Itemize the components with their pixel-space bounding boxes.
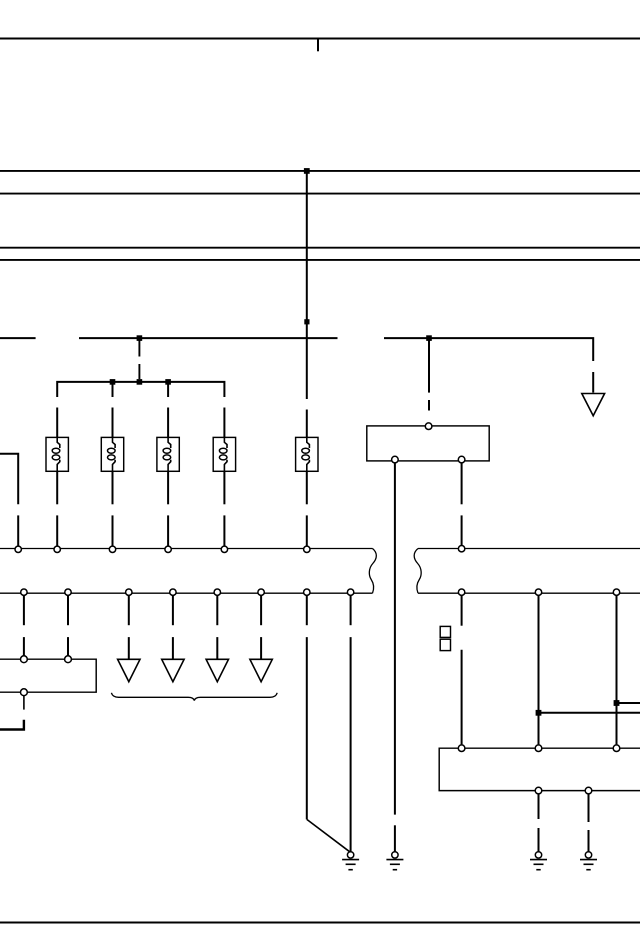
terminal on bus 2 at x=461.6 [458,589,464,595]
terminal on bus 1 at x=112.5 [109,546,115,552]
wire: coil L5 lead down to bus 1 [306,471,308,546]
terminal pin on bottom of U1 at x=461.6 [458,456,465,463]
terminal on bus 2 at x=68 [65,589,71,595]
terminal on bus 1 at x=168.1 [165,546,171,552]
terminal on bus 1 at x=306.8 [304,546,310,552]
terminal on bus 1 at x=461.6 [458,546,464,552]
wire: lead x=461.6 from U1 down to bus 1 [461,463,463,546]
junction dot at (538.5,712.8) [536,710,542,716]
coil box L3 (x=168.1) [157,437,179,471]
wire: drop x=68 from bus 2 to box U2 [67,595,69,656]
power bus line B (y=193.6) [0,193,640,195]
terminal on top of U2 at x=23.9 [21,656,28,663]
bus 1 right segment (y=548.5) [418,548,640,550]
break squiggle at end of bus 1/2 left segments [369,549,376,594]
junction dot at (616.5,703) [614,700,620,706]
junction dot at (139.4,381.9) [137,379,143,385]
wire: left elbow from edge (y=453.7) down to bus 1 [0,454,18,547]
terminal on bottom of U2 at x=23.9 [21,689,28,696]
wire: drop x=23.9 from bus 2 to box U2 [23,595,25,656]
terminal pin on top of U1 at x=428.6 [425,423,432,430]
wire: dashed below U2 then heavy elbow to left edge [0,696,24,730]
arrow A1 (open triangle, off-page pointer) [118,659,140,681]
wire: dashed feed into coil box 4 [223,408,225,438]
junction dot at (429,338.1) [426,335,432,341]
coil box L2 (x=112.5) [101,437,123,471]
bus 2 right segment (y=593.2) [418,592,640,594]
terminal on bus 2 at x=23.9 [21,589,27,595]
terminal on top of U2 at x=68 [65,656,72,663]
ground G2 (terminal + earth strokes) [386,852,403,870]
bottom frame border line [0,922,640,924]
terminal on bus 1 at x=57.2 [54,546,60,552]
box U2 (left connector block, cropped at left edge) [0,659,96,692]
wire: vertical feed x=306.8 from bus A down to coil box 5 [306,171,308,438]
box U1 (relay/unit, x 366.8-489.2, y 425.9-460.9) [367,426,489,461]
wire: drop x=616.5 from bus 2 down to box U3 [616,595,618,744]
wire: horizontal branch y=712.8 to right edge [539,712,640,714]
junction dot on bus A at x=306.8 [304,168,310,174]
wire: lead x=588.5 from U3 down to ground G5 [588,794,590,852]
power bus line A (y=170.9) [0,170,640,172]
terminal on top of U3 at x=538.5 [535,745,542,752]
terminal on bus 2 at x=172.9 [170,589,176,595]
wire: drop x=461.6 from bus 2 down to box U3 [461,595,463,744]
break squiggle at start of bus 1/2 right segments [414,549,421,594]
box U3 (bottom right unit, cropped at right edge) [439,748,640,790]
coil box L4 (x=224.4) [213,437,235,471]
terminal on top of U3 at x=461.6 [458,745,465,752]
wire: dashed feed into coil box 1 [56,408,58,438]
terminal on bus 1 at x=18.2 [15,546,21,552]
wire: drop x=429 from y=338 to connector of box U1 [428,338,430,410]
coil box L1 (x=57.2) [46,437,68,471]
wire: long lead x=394.9 from U1 down to ground G2 [394,463,396,852]
terminal on top of U3 at x=616.5 [613,745,620,752]
wire: drop x=128.8 to arrow A1 [128,595,130,659]
connector key square K2 [440,639,450,650]
ground G5 (terminal + earth strokes) [580,852,597,870]
wire: coil L2 lead down to bus 1 [112,471,114,546]
wire: coil L4 lead down to bus 1 [223,471,225,546]
wire: drop x=217.3 to arrow A3 [216,595,218,659]
terminal on bottom of U3 at x=538.5 [535,787,542,794]
wire: drop x=306.8 from bus 2 down, then diagonal to ground G3 [307,595,351,852]
power bus line C (y=247.7) [0,247,640,249]
terminal pin on bottom of U1 at x=394.9 [392,456,399,463]
arrow A2 (open triangle, off-page pointer) [162,659,184,681]
connector key square K1 [440,626,450,637]
wire: drop x=350.6 from bus 2 down to ground G3 [350,595,352,851]
underbrace grouping arrows A1-A4 [111,693,277,701]
bus 1 left segment (y=548.5) [0,548,373,550]
terminal on bus 2 at x=261.1 [258,589,264,595]
wire: distribution rail y=381.9 with end corners [57,382,224,397]
arrow A4 (open triangle, off-page pointer) [250,659,272,681]
ground G3 (terminal + earth strokes) [342,852,359,870]
wire: horizontal run y=338.1 left stub [0,337,36,339]
wire: horizontal run y=338.1 right segment with corner down at x=593.2 [384,338,593,361]
junction dot at (139.4,338.1) [137,335,143,341]
wire: dashed feed into coil box 3 [167,382,169,438]
junction dot at (168.1,381.9) [165,379,171,385]
ground G1 (hollow triangle) [582,394,605,416]
power bus line D (y=259.9) [0,259,640,261]
top frame border line [0,38,640,40]
terminal on bus 2 at x=306.8 [304,589,310,595]
splice dot on x=306.8 wire at y=321.8 [304,319,309,324]
terminal on bus 2 at x=128.8 [126,589,132,595]
terminal on bottom of U3 at x=588.5 [585,787,592,794]
wire: coil L1 lead down to bus 1 [56,471,58,546]
wire: drop x=538.5 from bus 2 down to box U3 [538,595,540,744]
wire: dashed drop x=139.4 from y=338 to y=382 [138,341,140,380]
wire: lead x=538.5 from U3 down to ground G4 [538,794,540,852]
terminal on bus 2 at x=350.6 [347,589,353,595]
ground G4 (terminal + earth strokes) [530,852,547,870]
wire: drop x=261.1 to arrow A4 [260,595,262,659]
bus 2 left segment (y=593.2) [0,592,373,594]
wire: dashed feed into coil box 2 [112,382,114,438]
arrow A3 (open triangle, off-page pointer) [206,659,228,681]
terminal on bus 2 at x=538.5 [535,589,541,595]
terminal on bus 2 at x=217.3 [214,589,220,595]
wire: horizontal branch y=703 to right edge [617,702,640,704]
wire: drop x=172.9 to arrow A2 [172,595,174,659]
tick on top frame at x=318 [317,39,319,52]
junction dot at (112.5,381.9) [110,379,116,385]
coil box L5 (x=306.8) [296,437,318,471]
terminal on bus 2 at x=616.5 [613,589,619,595]
wire: coil L3 lead down to bus 1 [167,471,169,546]
wire: dashed stub above ground triangle G1 [592,372,594,393]
terminal on bus 1 at x=224.4 [221,546,227,552]
wire: horizontal run y=338.1 middle segment [79,337,338,339]
